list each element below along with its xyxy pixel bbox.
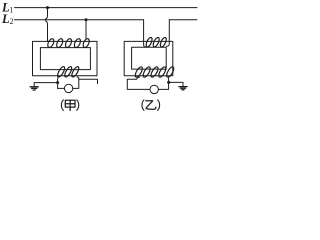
- coil T1 primary: [47, 38, 91, 49]
- node junction dot T1 secondary: [56, 81, 59, 84]
- ground G1: [30, 87, 38, 90]
- wire T1 lamp loop right: [73, 77, 79, 89]
- wire T1 primary right lead: [85, 20, 87, 40]
- label (甲): [61, 100, 78, 111]
- lamp A2 circle: [150, 85, 158, 93]
- ground G2: [179, 87, 187, 90]
- node junction dot on L1: [46, 6, 49, 9]
- label (乙): [142, 100, 160, 111]
- wire T1 primary left lead with hop over L2: [45, 8, 47, 42]
- coil T2 secondary: [134, 66, 175, 78]
- node junction dot T2 secondary: [167, 81, 170, 84]
- svg-text:2: 2: [10, 17, 14, 26]
- lamp A1 circle: [64, 84, 72, 92]
- wire L1 line: [15, 7, 198, 9]
- wire T1 lamp loop left: [58, 87, 65, 89]
- wire T2 lamp loop right: [158, 78, 168, 90]
- transformer T1 core inner: [40, 48, 90, 70]
- transformer T2 core inner: [132, 47, 167, 69]
- node L1 label: [1, 1, 14, 15]
- wire T2 primary right lead to L2 right: [166, 20, 169, 46]
- node L2 label: [1, 12, 14, 26]
- wire T1 stub terminal: [79, 79, 98, 83]
- wire T1 to ground: [34, 83, 57, 87]
- wire L2 line left segment: [15, 19, 144, 21]
- wire T2 secondary left lead: [127, 77, 150, 89]
- wire T2 primary left lead from L2: [144, 20, 147, 47]
- node junction dot on L2: [85, 18, 88, 21]
- svg-text:1: 1: [10, 6, 14, 15]
- wire T2 to ground: [169, 82, 183, 86]
- coil T1 secondary: [56, 66, 80, 78]
- coil T2 primary: [145, 37, 167, 48]
- wire L2 line right segment: [169, 19, 197, 21]
- transformer T2 core outer: [124, 41, 173, 75]
- wire T1 secondary left lead down: [58, 76, 60, 88]
- transformer T1 core outer: [33, 41, 98, 75]
